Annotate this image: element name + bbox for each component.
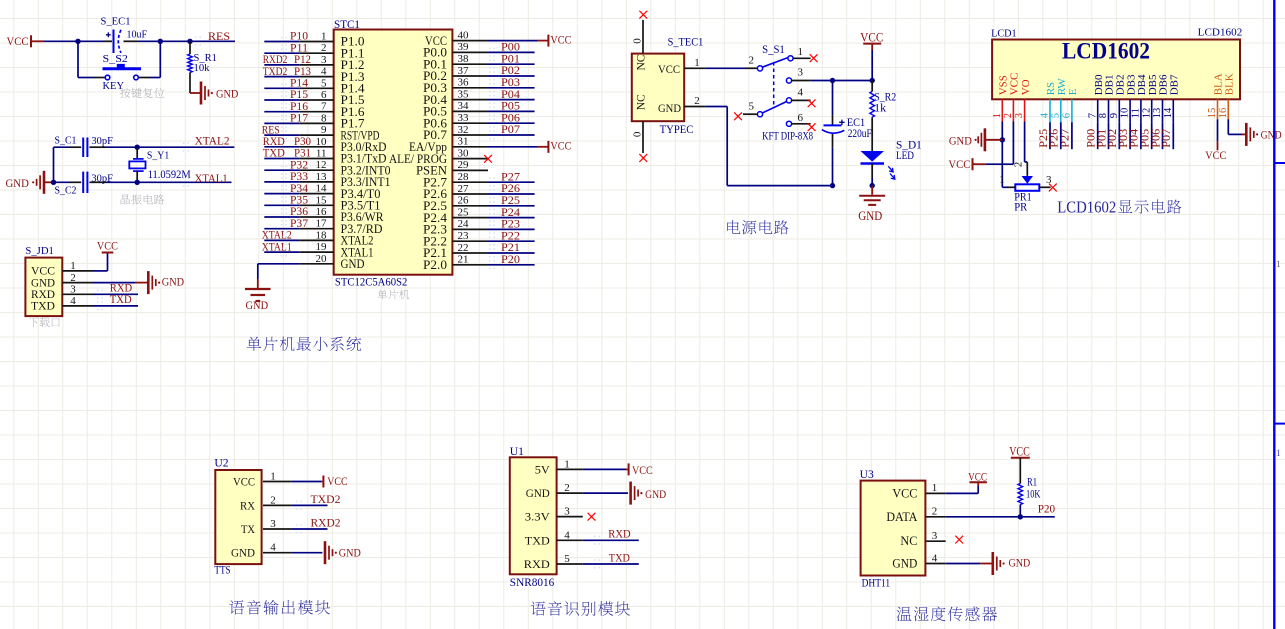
wire net row 7 left [264, 111, 299, 113]
svg-text:LCD1602: LCD1602 [1057, 198, 1116, 217]
wire net row 6 left [264, 99, 299, 101]
svg-text:9: 9 [321, 124, 327, 136]
connector S_JD1 [25, 245, 92, 316]
wire U2 pin1 to VCC [291, 481, 321, 483]
svg-text:32: 32 [458, 124, 469, 136]
mcu part number STC12C5A60S2 [335, 277, 408, 289]
wire net P20 right [488, 264, 535, 266]
push button S_S2 KEY [94, 53, 149, 92]
mcu pin 40 VCC [425, 29, 488, 47]
svg-text:P33: P33 [290, 171, 308, 183]
svg-text:P07: P07 [1161, 129, 1173, 148]
svg-text:VCC: VCC [1009, 73, 1021, 96]
net label RXD+P30 [263, 136, 311, 148]
svg-text:39: 39 [458, 41, 470, 53]
svg-text:11: 11 [316, 148, 327, 160]
svg-text:16: 16 [1218, 108, 1229, 119]
wire U3 pin4 to GND [946, 563, 981, 565]
caption 温湿度传感器 [897, 606, 997, 621]
typec pin 2 [684, 95, 705, 107]
svg-text:2: 2 [1012, 162, 1024, 168]
svg-text:13: 13 [316, 171, 328, 183]
svg-text:RXD: RXD [263, 136, 285, 148]
svg-text:NC: NC [636, 54, 648, 70]
net label P20 [489, 254, 520, 269]
net label P34 [281, 183, 308, 198]
switch S_S1 KFT DIP-8X8 [743, 44, 813, 143]
svg-text:GND: GND [1009, 556, 1031, 570]
no-ERC mark U1 pin3 [588, 513, 596, 521]
svg-text:RXD: RXD [524, 557, 550, 571]
net label P25 [489, 195, 520, 210]
wire TXD2 net (U2) [291, 504, 327, 506]
svg-text:2: 2 [749, 55, 755, 67]
wire net row 19 left [264, 251, 299, 253]
svg-text:22: 22 [458, 242, 469, 254]
mcu pin 17 P3.7/RD [299, 218, 382, 236]
svg-text:8: 8 [321, 112, 327, 124]
wire net P23 right [488, 228, 535, 230]
svg-text:P14: P14 [290, 78, 308, 90]
power port VCC (pin40) [538, 32, 572, 46]
mcu pin 13 P3.3/INT1 [299, 171, 390, 189]
power port VCC (R1) [1009, 444, 1030, 458]
wire lcd BLK to GND [1228, 119, 1242, 134]
power port VCC (JD1) [97, 239, 118, 253]
wire net row 4 left [264, 76, 299, 78]
mcu pin 16 P3.6/WR [299, 206, 384, 224]
typec pin 1 [684, 57, 705, 69]
wire net row 14 left [264, 193, 299, 195]
node D junction (gnd rail) [51, 180, 56, 185]
svg-text:1: 1 [798, 46, 804, 58]
caption TYPEC [660, 124, 694, 136]
svg-text:P37: P37 [290, 218, 308, 230]
net label RES [262, 124, 287, 139]
wire U1 pin2 to GND [583, 492, 628, 494]
potentiometer PR1 [999, 162, 1052, 214]
power port VCC (U2) [321, 474, 348, 488]
module U1 SNR8016 body [510, 446, 583, 574]
svg-text:LCD1602: LCD1602 [1198, 27, 1243, 39]
svg-text:6: 6 [798, 112, 804, 124]
svg-text:3.3V: 3.3V [525, 510, 550, 524]
wire net P02 right [488, 75, 535, 77]
wire VCC bar to node H [871, 50, 873, 81]
svg-text:P02: P02 [501, 65, 520, 77]
svg-text:3: 3 [564, 506, 570, 518]
svg-text:P23: P23 [501, 219, 520, 231]
module name SNR8016 [510, 577, 555, 589]
mcu pin 38 P0.1 [423, 53, 488, 71]
svg-text:27: 27 [458, 183, 470, 195]
wire net P27 right [488, 181, 535, 183]
wire lcd VCC pin2 to VCC port [986, 122, 1014, 165]
svg-text:25: 25 [458, 206, 470, 218]
svg-text:P22: P22 [501, 230, 520, 242]
wire net P26 right [488, 193, 535, 195]
net label RXD2+P12 [263, 54, 311, 66]
ground GND (crystal) [6, 171, 54, 194]
wire lcd VO pin3 to pot wiper [1025, 122, 1028, 163]
svg-text:TXD: TXD [110, 294, 132, 306]
mcu U-STC1 body [334, 19, 453, 275]
svg-text:S_TEC1: S_TEC1 [668, 37, 704, 49]
svg-text:28: 28 [458, 171, 470, 183]
svg-text:P11: P11 [290, 42, 308, 54]
module name DHT11 [862, 577, 891, 589]
wire net row 18 left [264, 239, 299, 241]
wire lcd pin 14 down [1172, 122, 1174, 149]
svg-text:0: 0 [632, 38, 644, 44]
wire net P21 right [488, 252, 535, 254]
typec pin 0 top [632, 20, 644, 54]
net label P25 (lcd) [1038, 129, 1050, 148]
resistor R1 10K [1018, 476, 1041, 516]
svg-text:1: 1 [932, 482, 938, 494]
svg-text:RXD2: RXD2 [263, 54, 288, 66]
mcu pin 29 PSEN [416, 159, 488, 177]
wire net P22 right [488, 240, 535, 242]
power port VCC (power circuit) [860, 31, 883, 50]
svg-text:VCC: VCC [892, 486, 917, 500]
lcd pin 10 DB3 [1120, 74, 1138, 122]
lcd pin 6 E [1062, 88, 1080, 122]
net label P32 [281, 159, 308, 174]
caption 语音识别模块 [531, 601, 630, 616]
wire lcd pin 10 down [1129, 122, 1131, 149]
ground GND (JD1) [148, 271, 184, 294]
svg-text:VCC: VCC [327, 474, 347, 488]
wire net row 8 left [264, 122, 299, 124]
svg-text:XTAL2: XTAL2 [195, 135, 230, 147]
svg-text:6: 6 [1062, 113, 1073, 118]
svg-text:TXD: TXD [31, 299, 55, 313]
wire RXD2 net (U2) [291, 528, 327, 530]
mcu pin 37 P0.2 [423, 65, 488, 83]
net label P07 (lcd) [1161, 129, 1173, 148]
net label P04 [489, 89, 520, 104]
svg-text:4: 4 [932, 552, 938, 564]
svg-text:S_S1: S_S1 [762, 44, 785, 56]
svg-text:S_Y1: S_Y1 [147, 150, 169, 162]
svg-text:2: 2 [70, 272, 76, 284]
svg-text:4: 4 [321, 66, 327, 78]
ground GND (power circuit) [858, 186, 885, 223]
net label P23 [489, 219, 520, 234]
lcd pin 4 RS [1040, 82, 1058, 122]
svg-text:10: 10 [1120, 108, 1131, 119]
svg-text:5: 5 [321, 77, 327, 89]
wire net row 2 left [264, 52, 299, 54]
wire node A down to key S_S2 [78, 41, 94, 77]
svg-text:16: 16 [316, 206, 328, 218]
wire net row 15 left [264, 204, 299, 206]
svg-text:GND: GND [858, 209, 882, 223]
mcu pin 2 P1.1 [299, 42, 364, 60]
svg-text:P30: P30 [294, 136, 311, 148]
svg-text:S_C1: S_C1 [55, 135, 77, 147]
svg-text:10: 10 [316, 136, 328, 148]
net label P00 (lcd) [1086, 129, 1098, 148]
mcu pin 10 P3.0/RxD [299, 136, 386, 154]
mcu pin 9 RST/VPD [299, 124, 379, 142]
lcd pin 16 BLK [1218, 73, 1236, 119]
no-ERC mark typec top [639, 11, 647, 19]
node G junction [830, 78, 835, 83]
net label P22 [489, 230, 520, 245]
svg-text:10K: 10K [1026, 488, 1041, 500]
svg-text:4: 4 [1040, 112, 1051, 118]
mcu pin 24 P2.3 [423, 218, 488, 236]
svg-text:GND: GND [231, 546, 255, 560]
svg-text:1: 1 [1276, 259, 1281, 269]
svg-text:P35: P35 [290, 195, 308, 207]
net label P24 [489, 207, 520, 222]
svg-text:21: 21 [458, 254, 469, 266]
svg-text:GND: GND [341, 257, 365, 271]
svg-text:37: 37 [458, 65, 470, 77]
ground GND (U3) [980, 552, 1030, 575]
svg-text:GND: GND [216, 86, 239, 100]
mcu pin 14 P3.4/T0 [299, 183, 380, 201]
net label P03 (lcd) [1118, 129, 1130, 148]
wire U2 pin4 to GND [291, 552, 322, 554]
svg-text:E: E [1067, 88, 1079, 95]
wire U3 pin1 to VCC [946, 492, 979, 494]
svg-text:LCD1: LCD1 [991, 27, 1017, 39]
svg-text:XTAL2: XTAL2 [262, 230, 292, 242]
caption 晶振电路 [121, 194, 165, 204]
svg-text:TXD2: TXD2 [263, 66, 288, 78]
svg-text:P2.0: P2.0 [423, 258, 447, 272]
svg-text:S_S2: S_S2 [103, 53, 128, 65]
svg-text:KFT DIP-8X8: KFT DIP-8X8 [762, 131, 813, 143]
wire net P01 right [488, 63, 535, 65]
net label P05 (lcd) [1140, 129, 1152, 148]
mcu pin 8 P1.7 [299, 112, 364, 130]
lcd pin 14 DB7 [1163, 74, 1181, 122]
svg-text:GND: GND [892, 557, 917, 571]
mcu pin 36 P0.3 [423, 77, 488, 95]
svg-text:12: 12 [1141, 108, 1152, 119]
caption 按键复位 [120, 88, 165, 98]
net label P07 [489, 124, 520, 139]
svg-text:5: 5 [564, 553, 570, 565]
mcu pin 20 GND [299, 253, 364, 271]
net label P27 [489, 171, 520, 186]
wire net P03 right [488, 87, 535, 89]
power port VCC (lcd) [948, 157, 986, 171]
lcd pin 2 VCC [1003, 73, 1021, 122]
wire lcd pin 7 down [1097, 122, 1099, 149]
svg-text:GND: GND [246, 298, 269, 312]
svg-text:P32: P32 [290, 159, 308, 171]
power port VCC (U1) [626, 463, 653, 477]
wire node A to capacitor S_EC1 [78, 40, 104, 42]
svg-text:23: 23 [458, 230, 470, 242]
svg-text:P20: P20 [1038, 504, 1056, 516]
svg-text:1: 1 [694, 57, 700, 69]
svg-text:R1: R1 [1027, 476, 1037, 488]
wire net P00 right [488, 51, 535, 53]
svg-text:30: 30 [458, 147, 470, 159]
svg-text:LCD1602: LCD1602 [1062, 39, 1150, 64]
svg-text:5: 5 [1050, 113, 1061, 118]
node I junction [830, 183, 835, 188]
net label P17 [281, 113, 308, 128]
wire lcd pin 5 down [1060, 122, 1062, 149]
wire node B to node C [160, 40, 190, 42]
net label P06 (lcd) [1150, 129, 1162, 148]
wire net P25 right [488, 205, 535, 207]
svg-text:P06: P06 [501, 112, 520, 124]
node F junction [135, 180, 140, 185]
wire U1 pin1 to VCC [583, 468, 626, 470]
svg-text:P17: P17 [290, 113, 308, 125]
net label P02 (lcd) [1107, 129, 1119, 148]
svg-text:2: 2 [694, 95, 700, 107]
caption 单片机 [377, 290, 409, 300]
net label RXD2 [296, 517, 341, 533]
ground GND (mcu) [245, 279, 271, 312]
node C junction [187, 39, 192, 44]
svg-text:P25: P25 [501, 195, 520, 207]
capacitor S_EC1 10uF polarized [101, 16, 148, 54]
svg-text:10k: 10k [194, 62, 210, 74]
wire net row 10 left [264, 146, 299, 148]
net label TXD (U1) [594, 552, 630, 568]
lcd pin 8 DB1 [1098, 75, 1116, 123]
svg-text:220uF: 220uF [848, 128, 872, 140]
node K junction [1000, 137, 1005, 142]
ground GND (U1) [631, 482, 667, 505]
mcu pin 26 P2.5 [423, 195, 488, 213]
svg-text:8: 8 [1098, 113, 1109, 118]
net label XTAL1 [262, 241, 292, 256]
mcu pin 21 P2.0 [423, 254, 488, 272]
svg-text:GND: GND [6, 176, 30, 190]
mcu pin 34 P0.5 [423, 100, 488, 118]
wire lcd BLA to VCC [1217, 119, 1219, 141]
net label P05 [489, 101, 520, 116]
wire capacitor to node B [137, 40, 160, 42]
svg-text:S_JD1: S_JD1 [25, 245, 54, 257]
svg-text:4: 4 [564, 529, 570, 541]
svg-text:LED: LED [896, 150, 914, 162]
svg-text:TX: TX [241, 522, 255, 536]
svg-text:18: 18 [316, 229, 328, 241]
lcd LCD1 designator [991, 27, 1017, 39]
sheet zone label 2 [1276, 448, 1281, 458]
net label P21 [489, 242, 520, 257]
net label RES [195, 31, 230, 46]
wire net row 5 left [264, 87, 299, 89]
wire C1 to node E [105, 146, 137, 148]
svg-text:RXD: RXD [110, 282, 132, 294]
caption 单片机最小系统 [247, 337, 362, 352]
svg-text:4: 4 [798, 86, 804, 98]
svg-text:40: 40 [458, 29, 470, 41]
svg-text:TXD: TXD [263, 148, 285, 160]
mcu pin 25 P2.4 [423, 206, 488, 224]
node L junction [1018, 514, 1023, 519]
module U2 TTS body [214, 457, 291, 564]
svg-text:13: 13 [1152, 108, 1163, 119]
svg-text:2: 2 [564, 482, 570, 494]
svg-text:3: 3 [270, 518, 276, 530]
svg-text:XTAL1: XTAL1 [262, 241, 292, 253]
wire lcd pin 12 down [1151, 122, 1153, 149]
svg-text:P31: P31 [294, 148, 311, 160]
net label P04 (lcd) [1129, 129, 1141, 148]
sheet zone label 1 [1276, 259, 1281, 269]
node J junction [870, 183, 875, 188]
svg-text:VCC: VCC [658, 62, 680, 76]
svg-text:1k: 1k [874, 102, 886, 114]
wire gnd rail up [54, 147, 71, 182]
svg-text:1: 1 [321, 31, 327, 43]
sheet border tick 1 [1274, 162, 1285, 164]
svg-text:KEY: KEY [103, 80, 125, 92]
svg-text:2: 2 [932, 506, 938, 518]
wire VCC to R1 [1019, 458, 1021, 484]
svg-text:VCC: VCC [948, 157, 970, 171]
svg-text:2: 2 [321, 42, 327, 54]
wire LED to gnd rail [871, 178, 873, 186]
wire net P07 right [488, 134, 535, 136]
svg-text:VCC: VCC [1205, 148, 1226, 162]
mcu pin 5 P1.4 [299, 77, 364, 95]
svg-text:P27: P27 [501, 171, 520, 183]
lcd part name LCD1602 (top right) [1198, 27, 1243, 39]
wire net row 16 left [264, 216, 299, 218]
svg-text:TYPEC: TYPEC [660, 124, 694, 136]
svg-text:1: 1 [992, 113, 1003, 118]
no-ERC mark U3 pin3 [955, 536, 963, 544]
crystal S_Y1 11.0592M [129, 147, 190, 182]
power port VCC (backlight) [1205, 141, 1226, 162]
svg-text:3: 3 [70, 284, 76, 296]
net label P27 (lcd) [1060, 129, 1072, 148]
ground GND (reset) [190, 82, 239, 105]
svg-text:36: 36 [458, 77, 470, 89]
svg-text:P12: P12 [294, 54, 311, 66]
svg-text:VCC: VCC [233, 475, 255, 489]
svg-text:GND: GND [162, 274, 185, 288]
svg-text:14: 14 [1163, 107, 1174, 118]
svg-text:RXD2: RXD2 [311, 517, 341, 529]
sheet border tick 2 [1274, 423, 1285, 425]
caption LCD1602显示电路 [1057, 198, 1181, 217]
svg-text:1: 1 [1276, 448, 1281, 458]
wire net row 17 left [264, 228, 299, 230]
svg-text:VCC: VCC [550, 32, 571, 46]
svg-text:NC: NC [636, 94, 648, 110]
svg-text:P34: P34 [290, 183, 308, 195]
mcu pin 39 P0.0 [423, 41, 488, 59]
svg-text:TXD: TXD [609, 552, 630, 564]
svg-text:1: 1 [270, 471, 276, 483]
svg-text:3: 3 [321, 54, 327, 66]
net label P26 (lcd) [1049, 129, 1061, 148]
svg-text:TXD2: TXD2 [311, 494, 341, 506]
wire JD1 pin2 to GND [93, 282, 149, 284]
svg-text:34: 34 [458, 100, 470, 112]
svg-text:35: 35 [458, 88, 470, 100]
svg-text:VCC: VCC [7, 34, 29, 48]
mcu pin 35 P0.4 [423, 88, 488, 106]
